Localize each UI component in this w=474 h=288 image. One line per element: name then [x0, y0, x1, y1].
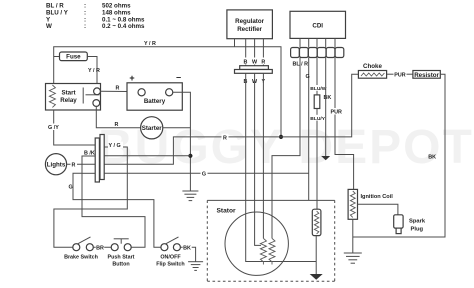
svg-text:Battery: Battery — [144, 98, 166, 105]
svg-text:–: – — [176, 72, 181, 82]
svg-text:BK: BK — [183, 245, 191, 251]
svg-text:Rectifier: Rectifier — [237, 26, 262, 33]
svg-text:Flip Switch: Flip Switch — [156, 262, 184, 268]
svg-text:Plug: Plug — [411, 227, 424, 233]
regulator rectifier U1 — [227, 10, 273, 39]
svg-text:BL / R: BL / R — [293, 62, 309, 68]
choke — [358, 63, 386, 78]
svg-text:BLU / Y: BLU / Y — [46, 10, 69, 17]
svg-text:Stator: Stator — [217, 208, 236, 215]
ground G2 flip switch — [188, 262, 203, 271]
wire relay to battery + — [100, 90, 138, 92]
wire BK from CDI to chassis — [325, 58, 327, 157]
stator coil L1 zigzag — [260, 238, 266, 264]
svg-text:Ignition Coil: Ignition Coil — [361, 194, 394, 200]
label R (main bus) — [222, 134, 229, 142]
svg-text:BK: BK — [428, 155, 436, 161]
wire BR brake to push — [93, 246, 111, 248]
connector J2 CDI — [291, 48, 344, 58]
svg-text:G: G — [202, 172, 206, 178]
svg-text:PUR: PUR — [394, 72, 405, 78]
svg-text::: : — [84, 23, 86, 30]
wire W to stator coil tap — [255, 73, 261, 245]
svg-text:148 ohms: 148 ohms — [102, 10, 131, 17]
wire BLU/Y to pickup — [316, 109, 318, 210]
fuse F1 — [60, 52, 88, 61]
wire regulator pin to Y/R bus — [234, 39, 236, 47]
label G (harness) — [201, 170, 208, 178]
stator flywheel circle — [225, 212, 288, 275]
wire B/K stub left — [82, 156, 95, 173]
ignition coil T1 — [348, 189, 393, 219]
lights — [45, 154, 66, 175]
starter M1 — [141, 117, 163, 139]
svg-text:R: R — [116, 86, 120, 92]
svg-text:G /Y: G /Y — [48, 125, 59, 131]
wire resistor BK down — [353, 74, 445, 237]
relay contact bar — [82, 88, 84, 104]
svg-text:BLU/Y: BLU/Y — [310, 116, 325, 122]
svg-text:Regulator: Regulator — [235, 18, 264, 25]
svg-text::: : — [84, 3, 86, 10]
labels B W R — [242, 58, 267, 66]
wire battery - to ground rail — [173, 92, 191, 191]
svg-text:R: R — [72, 162, 76, 168]
connector J1 regulator — [235, 66, 273, 74]
resistor R1 — [413, 71, 440, 79]
wire G from CDI to stator — [308, 58, 310, 201]
push start button S2 — [108, 239, 135, 268]
wire regulator pin W — [254, 39, 256, 66]
svg-text:BL / R: BL / R — [46, 3, 64, 10]
connector J3 harness bars — [95, 135, 104, 183]
label BLU/W — [310, 85, 327, 92]
svg-text:BR: BR — [96, 245, 104, 251]
label PUR (CDI) — [330, 108, 342, 116]
svg-text:Choke: Choke — [363, 63, 382, 70]
wire lights R to connector — [67, 163, 96, 165]
svg-text:CDI: CDI — [312, 23, 323, 30]
wire starter to ground rail — [163, 127, 191, 129]
svg-text:Button: Button — [112, 262, 129, 268]
svg-text:+: + — [129, 73, 134, 83]
relay coil zigzag — [49, 85, 55, 107]
CDI unit U2 — [290, 11, 346, 38]
wire G/Y relay coil to connector — [54, 110, 95, 145]
wire hub to connector G pin — [82, 172, 95, 174]
svg-text:G: G — [306, 74, 310, 80]
wire Y into stator — [262, 73, 264, 238]
stator box dashed — [207, 200, 334, 281]
wire pickup to chassis ground — [315, 236, 317, 274]
wire G branch to flip switch — [73, 173, 161, 247]
svg-text:B /K: B /K — [84, 151, 95, 157]
svg-text:R: R — [115, 122, 119, 128]
brake switch S1 — [64, 237, 98, 261]
label Y / G — [108, 142, 123, 150]
wire flip switch BK to ground — [180, 247, 195, 262]
svg-text:Brake Switch: Brake Switch — [64, 255, 98, 261]
svg-text:ON/OFF: ON/OFF — [160, 255, 181, 261]
wire branch to push start — [82, 173, 145, 247]
svg-text:Y / R: Y / R — [88, 68, 100, 74]
svg-text:Spark: Spark — [409, 219, 426, 225]
battery BT1 — [127, 72, 182, 110]
wire BLU/W upper — [316, 58, 318, 95]
spark plug P1 — [394, 215, 426, 234]
ground G3 ignition coil — [344, 253, 362, 263]
relay terminal upper — [94, 88, 101, 95]
svg-text:Fuse: Fuse — [66, 54, 81, 61]
wire regulator pin R — [262, 39, 264, 66]
ground chassis triangle BK — [321, 156, 330, 160]
label BR — [96, 244, 105, 252]
wire B to stator bus — [246, 73, 317, 261]
pickup coil L3 — [312, 209, 321, 235]
ground G1 battery negative — [182, 191, 198, 201]
svg-text:R: R — [261, 60, 265, 66]
svg-text:0.2 ~ 0.4 ohms: 0.2 ~ 0.4 ohms — [102, 23, 145, 30]
svg-text::: : — [84, 10, 86, 17]
svg-text:W: W — [46, 23, 52, 30]
wire PUR from CDI to ignition line — [335, 58, 354, 190]
svg-text:BK: BK — [324, 95, 332, 101]
legend resistance table — [46, 3, 145, 31]
resistor R2 inline — [314, 95, 320, 109]
svg-text:B: B — [244, 60, 248, 66]
svg-text:Y / G: Y / G — [109, 143, 121, 149]
svg-text:502 ohms: 502 ohms — [102, 3, 131, 10]
wire regulator pin B — [245, 39, 247, 66]
relay terminal lower — [93, 100, 100, 107]
relay contact mid line — [86, 94, 100, 96]
wire Y/R main top horizontal — [54, 47, 281, 137]
node junction dot Y/R to R bus — [279, 135, 283, 139]
labels B W Y — [242, 77, 267, 85]
CDI pin stubs — [300, 38, 335, 47]
svg-text:Lights: Lights — [47, 162, 66, 169]
label R (lights) — [71, 161, 78, 168]
flip switch S3 — [156, 237, 184, 268]
wire Y/G connector to brake circuit — [54, 147, 127, 247]
svg-text:Relay: Relay — [60, 97, 77, 104]
stator coil L2 zigzag — [269, 238, 275, 264]
wire coil ground leg — [352, 219, 354, 253]
svg-text:Push Start: Push Start — [108, 255, 135, 261]
wire relay lower contact to starter — [96, 106, 140, 127]
svg-text:Resistor: Resistor — [414, 72, 439, 79]
label G /Y — [47, 124, 61, 132]
wire B/K connector to ground rail — [104, 155, 190, 157]
wire coil HT to spark plug — [358, 204, 398, 215]
label BLU/Y — [310, 115, 326, 122]
svg-text:G: G — [69, 185, 73, 191]
wire R main bus — [104, 74, 358, 164]
svg-text:Starter: Starter — [142, 125, 163, 132]
wire choke to resistor with PUR label — [387, 72, 413, 78]
label BK (flip switch) — [183, 244, 192, 252]
wire fuse to relay contact — [87, 57, 97, 88]
wire BL/R from CDI to stator — [272, 58, 300, 239]
ground chassis triangle stator — [310, 274, 323, 280]
start relay K1 — [46, 84, 101, 111]
svg-text:PUR: PUR — [331, 110, 342, 116]
wire G harness to CDI G — [104, 172, 309, 174]
svg-text:R: R — [223, 135, 227, 141]
wire fuse left stub — [54, 56, 60, 58]
svg-text:BLU/W: BLU/W — [310, 86, 326, 92]
node junction dot B/K ground rail — [188, 154, 192, 158]
svg-text:Start: Start — [61, 90, 75, 97]
svg-text:Y / R: Y / R — [144, 41, 156, 47]
